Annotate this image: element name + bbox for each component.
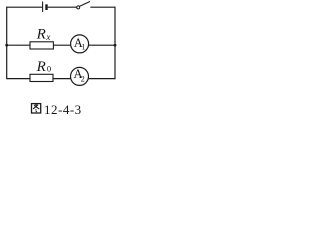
wire right vertical [114,7,116,80]
battery E (short thick negative plate) [45,4,47,10]
switch S blade [80,2,90,7]
svg-text:0: 0 [47,63,51,73]
caption hanzi "tu" (figure) drawn as strokes [32,104,41,113]
resistor Rx body [30,42,53,49]
svg-text:R: R [36,26,46,42]
wire switch to top-right corner [90,6,115,8]
svg-text:R: R [36,59,46,75]
label R0 [36,59,52,75]
ammeter A1 circle [71,35,89,53]
wire battery to switch [48,6,77,8]
svg-text:x: x [45,32,50,42]
node junction left [5,44,8,47]
wire left vertical [6,7,8,80]
label Rx [36,26,51,42]
svg-text:12-4-3: 12-4-3 [44,102,82,117]
battery E (long positive plate) [42,2,44,12]
svg-text:2: 2 [81,75,85,84]
wire bottom branch: left corner to resistor R0 [7,78,30,80]
wire Rx to ammeter A1 [53,44,70,46]
svg-text:1: 1 [82,43,86,52]
switch S pivot circle [77,6,80,9]
caption text 12-4-3 [44,102,82,117]
node junction right [114,44,117,47]
wire A2 to bottom-right corner [89,78,116,80]
wire top-left: left corner to battery [7,6,42,8]
label A1 (inside ammeter A1) [74,36,86,52]
label A2 (inside ammeter A2) [74,67,85,84]
ammeter A2 circle [71,67,89,85]
wire A1 to right junction [89,44,115,46]
wire R0 to ammeter A2 [53,78,70,80]
wire middle branch: left junction to resistor Rx [7,44,30,46]
resistor R0 body [30,74,53,81]
